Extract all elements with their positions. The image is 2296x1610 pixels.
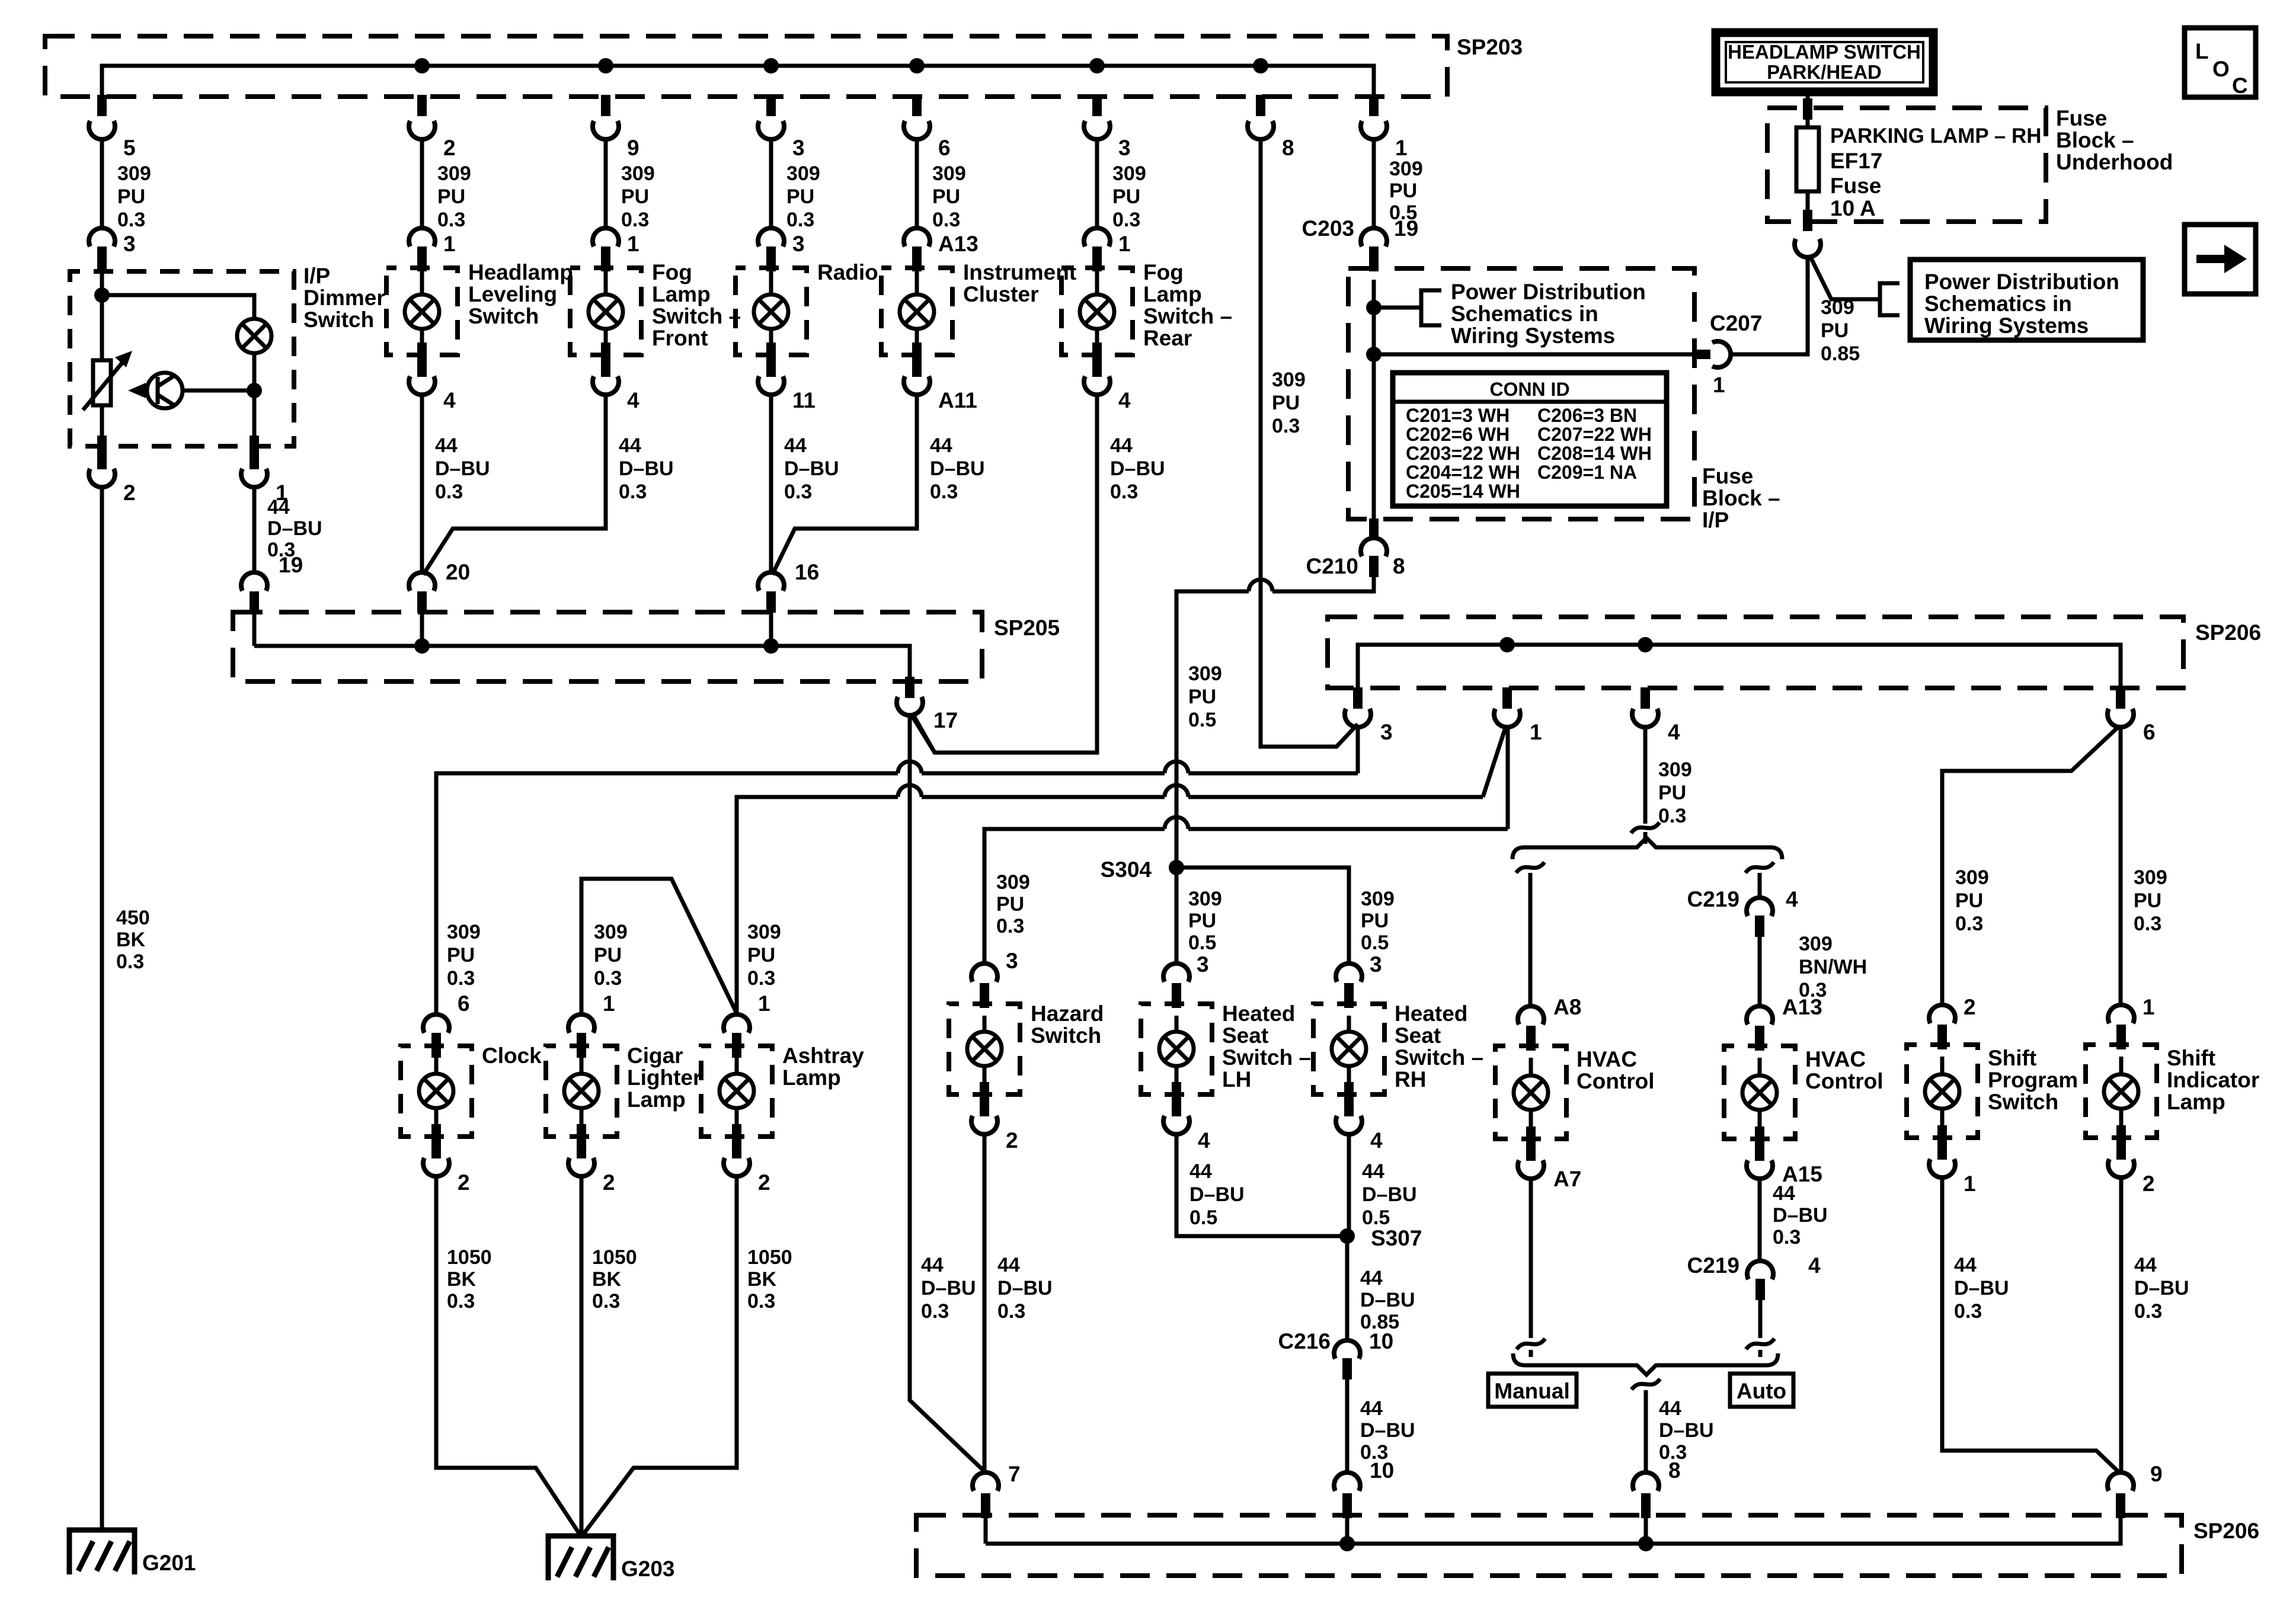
connector pin 2 hazard bottom (980, 1095, 989, 1116)
shift program switch dashed box (1907, 1045, 1978, 1138)
svg-text:8: 8 (1393, 554, 1405, 578)
svg-text:44: 44 (1773, 1182, 1795, 1205)
splice pack SP203 dashed box (45, 36, 1447, 97)
svg-text:S304: S304 (1101, 857, 1152, 882)
junction SP205 bus at pin 20 (414, 638, 430, 654)
lamp shift program switch (1925, 1074, 1959, 1109)
svg-text:44: 44 (1954, 1254, 1977, 1276)
ground G203 (548, 1536, 613, 1580)
svg-text:3: 3 (792, 232, 805, 256)
svg-text:Lighter: Lighter (627, 1065, 701, 1090)
svg-text:0.3: 0.3 (921, 1300, 949, 1323)
svg-text:309: 309 (1361, 888, 1395, 910)
connector SP203 pin 9 (fog front feed) (601, 95, 610, 116)
wire into clock lamp (434, 1058, 439, 1074)
wire 309 PU 0.3 to fog lamp switch rear (1095, 139, 1099, 228)
svg-text:S307: S307 (1371, 1226, 1422, 1250)
junction bottom bus at pin 10 (1339, 1536, 1355, 1551)
connector pin 11 radio bottom (766, 356, 776, 377)
svg-text:Fog: Fog (652, 260, 692, 284)
lamp HVAC control auto (1742, 1076, 1777, 1110)
svg-text:I/P: I/P (1702, 508, 1729, 532)
connector pin 1 shift program bottom (1937, 1138, 1947, 1160)
wire clock feed (SP206 pin 3 to clock) (436, 773, 1358, 1014)
svg-text:0.3: 0.3 (1110, 481, 1138, 503)
wire 309 PU 0.3 to instrument cluster (915, 139, 919, 228)
svg-text:4: 4 (1118, 388, 1131, 412)
wire headlamp switch to fuse (1806, 91, 1810, 127)
svg-text:10: 10 (1370, 1458, 1394, 1483)
svg-text:PU: PU (1361, 910, 1389, 932)
svg-text:44: 44 (1110, 434, 1133, 457)
svg-text:44: 44 (2134, 1254, 2157, 1276)
wire 44 D-BU 0.3 headlamp leveling to SP205 pin 20 (420, 395, 424, 572)
wire 44 D-BU 0.3 HVAC return to SP206 pin 8 (1644, 1390, 1648, 1473)
svg-text:309: 309 (1955, 866, 1989, 889)
svg-text:D–BU: D–BU (1954, 1277, 2009, 1299)
svg-text:44: 44 (619, 434, 641, 457)
svg-text:PU: PU (117, 185, 145, 208)
connector SP206 pin 4 (1641, 687, 1650, 709)
svg-text:D–BU: D–BU (1360, 1289, 1415, 1311)
wire pin 10 into bottom SP206 bus (1345, 1517, 1350, 1544)
svg-text:C201=3 WH: C201=3 WH (1406, 405, 1510, 426)
connector SP203 pin 3 (fog rear feed) (1092, 95, 1102, 116)
node fuse block power distribution tap (1366, 300, 1382, 315)
wire SP206 pin 3 vertical leg to clock run (1356, 727, 1360, 773)
wire shift indicator lamp to pin 2 (2119, 1109, 2124, 1138)
cigar lighter lamp dashed box (546, 1046, 617, 1137)
wire into fog rear lamp (1095, 271, 1099, 295)
svg-text:0.5: 0.5 (1361, 932, 1389, 954)
svg-text:0.3: 0.3 (930, 481, 958, 503)
wire into HVAC manual lamp (1529, 1058, 1533, 1076)
splice option mark merged HVAC return (1632, 1379, 1660, 1390)
wire 44 D-BU 0.3 shift program to SP206 pin 9 (1942, 1177, 2121, 1474)
svg-text:HEADLAMP SWITCH: HEADLAMP SWITCH (1728, 41, 1921, 63)
wire pin 7 into bottom SP206 bus (984, 1517, 988, 1544)
svg-text:3: 3 (1380, 720, 1393, 744)
wire cigar lamp to pin 2 (580, 1108, 584, 1137)
svg-text:Switch: Switch (1988, 1090, 2058, 1114)
hop of C210 wire over SP203 pin 8 wire (1249, 580, 1272, 591)
wire SP206 pin 1 vertical leg to hazard run (1506, 727, 1510, 829)
wire pin 19 into SP205 bus (252, 611, 257, 646)
svg-text:D–BU: D–BU (2134, 1277, 2189, 1299)
wire 44 D-BU 0.85 S307 to C216 (1345, 1236, 1350, 1340)
wire fog front lamp to pin 4 (604, 329, 608, 355)
lamp I/P dimmer illumination (237, 319, 271, 353)
svg-text:0.3: 0.3 (2134, 913, 2161, 935)
wire 44 D-BU 0.3 shift indicator to SP206 pin 9 (2119, 1177, 2124, 1473)
svg-text:1: 1 (1713, 373, 1725, 397)
radio dashed box (736, 268, 807, 355)
svg-text:PARKING LAMP – RH: PARKING LAMP – RH (1830, 124, 2042, 148)
svg-text:44: 44 (930, 434, 952, 457)
arrow from sensor to rheostat (141, 389, 147, 393)
svg-text:44: 44 (267, 496, 290, 518)
svg-text:0.5: 0.5 (1188, 709, 1216, 731)
svg-text:0.3: 0.3 (621, 209, 649, 231)
node I/P dimmer internal junction (94, 287, 110, 303)
svg-text:44: 44 (921, 1254, 944, 1276)
clock dashed box (401, 1046, 472, 1137)
svg-text:309: 309 (437, 162, 471, 185)
svg-text:309: 309 (786, 162, 820, 185)
svg-text:Fuse: Fuse (2056, 106, 2107, 130)
svg-text:EF17: EF17 (1830, 149, 1882, 173)
svg-text:6: 6 (458, 991, 470, 1016)
svg-text:44: 44 (1362, 1160, 1384, 1183)
svg-text:D–BU: D–BU (1773, 1204, 1828, 1227)
connector pin 2 clock bottom (431, 1137, 441, 1158)
svg-text:D–BU: D–BU (435, 457, 490, 480)
svg-text:Manual: Manual (1494, 1379, 1569, 1403)
svg-text:C210: C210 (1306, 554, 1358, 578)
svg-text:0.3: 0.3 (435, 481, 463, 503)
svg-text:5: 5 (123, 136, 136, 160)
svg-text:1: 1 (1530, 720, 1542, 744)
svg-text:Dimmer: Dimmer (303, 286, 385, 310)
svg-text:Program: Program (1988, 1068, 2078, 1092)
LOC legend box (2185, 28, 2256, 97)
wire I/P dimmer internal top branch to lamp (102, 295, 254, 319)
svg-text:1: 1 (1964, 1172, 1976, 1196)
svg-text:Clock: Clock (482, 1044, 542, 1068)
svg-text:1050: 1050 (747, 1246, 792, 1269)
wire 44 D-BU 0.3 C216 to SP206 pin 10 (1345, 1379, 1350, 1473)
svg-text:CONN ID: CONN ID (1489, 379, 1569, 400)
svg-text:309: 309 (1658, 758, 1692, 781)
svg-text:Seat: Seat (1395, 1023, 1441, 1048)
svg-text:0.3: 0.3 (447, 1290, 475, 1313)
svg-text:C203: C203 (1302, 216, 1354, 241)
svg-text:D–BU: D–BU (997, 1277, 1053, 1299)
svg-text:309: 309 (1389, 158, 1423, 180)
svg-text:PU: PU (1821, 319, 1849, 342)
wire sensor to lamp branch (183, 389, 254, 393)
connector SP206 pin 6 (2116, 687, 2125, 709)
svg-text:D–BU: D–BU (1659, 1419, 1714, 1442)
svg-text:309: 309 (747, 921, 781, 943)
wire I/P dimmer lamp to bottom (252, 353, 257, 446)
svg-text:PU: PU (621, 185, 649, 208)
svg-text:PARK/HEAD: PARK/HEAD (1767, 61, 1882, 83)
svg-text:C206=3 BN: C206=3 BN (1537, 405, 1637, 426)
svg-text:19: 19 (1394, 216, 1418, 241)
svg-text:309: 309 (932, 162, 966, 185)
svg-text:309: 309 (996, 871, 1030, 894)
svg-text:0.5: 0.5 (1188, 932, 1216, 954)
lamp radio illumination (754, 295, 788, 329)
node fuse block C207 tap (1366, 347, 1382, 362)
svg-text:Lamp: Lamp (652, 282, 711, 306)
instrument cluster dashed box (881, 268, 952, 355)
wire HVAC manual to bottom brace (1529, 1179, 1533, 1357)
splice pack SP205 dashed box (233, 612, 982, 681)
wire hazard lamp to pin 2 (983, 1066, 987, 1094)
fuse block I/P dashed box (1348, 268, 1694, 519)
wire 44 D-BU 0.3 HVAC auto to C219 (1758, 1179, 1762, 1261)
svg-text:0.3: 0.3 (594, 967, 622, 990)
svg-text:8: 8 (1282, 136, 1294, 160)
junction SP205 bus at pin 16 (763, 638, 779, 654)
wire C219 lower to bottom brace (1758, 1300, 1763, 1357)
wire 450 BK 0.3 to G201 (100, 487, 104, 1530)
svg-text:PU: PU (747, 944, 775, 966)
svg-text:4: 4 (1198, 1128, 1210, 1153)
junction on SP203 bus at fog rear drop (1089, 58, 1105, 73)
svg-text:A7: A7 (1553, 1167, 1581, 1191)
wire 44 D-BU 0.5 heated RH to S307 (1347, 1134, 1351, 1236)
svg-text:Switch –: Switch – (1222, 1045, 1311, 1070)
splice option mark HVAC manual bottom (1517, 1339, 1545, 1349)
bracket power distribution reference (1421, 290, 1441, 325)
wire into heated LH lamp (1175, 1016, 1179, 1032)
svg-text:0.3: 0.3 (1272, 415, 1300, 437)
svg-text:HVAC: HVAC (1576, 1047, 1637, 1071)
svg-text:Schematics in: Schematics in (1924, 292, 2072, 316)
connector SP203 pin 1 (fuse block feed) (1369, 95, 1379, 116)
svg-text:1: 1 (2142, 995, 2155, 1019)
svg-text:Cigar: Cigar (627, 1044, 683, 1068)
wire SP205 pin 17 down to SP206 pin 7 (910, 715, 986, 1473)
svg-text:PU: PU (1389, 180, 1417, 202)
wire tap to power distribution bracket (1374, 306, 1421, 310)
junction on SP203 bus at pin 8 drop (1253, 58, 1268, 73)
svg-text:0.3: 0.3 (786, 209, 814, 231)
lamp ashtray (720, 1074, 754, 1108)
junction on SP203 bus at radio drop (763, 58, 779, 73)
svg-text:D–BU: D–BU (1189, 1183, 1245, 1206)
splice pack SP206 dashed box (bottom) (916, 1515, 2182, 1576)
svg-text:Ashtray: Ashtray (782, 1044, 864, 1068)
svg-text:11: 11 (792, 388, 816, 412)
wire SP203 pin 8 down to SP206 pin 3 (1261, 139, 1358, 747)
hop ashtray feed over S304 wire (1165, 785, 1188, 797)
svg-text:Schematics in: Schematics in (1451, 302, 1598, 326)
HVAC control (auto) dashed box (1724, 1046, 1795, 1139)
svg-text:D–BU: D–BU (1362, 1183, 1417, 1206)
Manual option box (1488, 1374, 1576, 1407)
wire 309 PU 0.3 to radio (769, 139, 773, 228)
svg-text:1050: 1050 (592, 1246, 637, 1269)
svg-text:C205=14 WH: C205=14 WH (1406, 481, 1520, 502)
svg-text:Lamp: Lamp (1143, 282, 1202, 306)
svg-text:Switch: Switch (303, 308, 374, 332)
svg-text:Underhood: Underhood (2056, 150, 2173, 174)
wire SP206 bottom internal bus (986, 1517, 2121, 1544)
node I/P dimmer lamp/sensor junction (247, 383, 262, 398)
svg-text:PU: PU (1188, 686, 1216, 708)
svg-text:A13: A13 (938, 232, 978, 256)
svg-text:309: 309 (2134, 866, 2167, 889)
connector pin 4 heated LH bottom (1172, 1095, 1181, 1116)
svg-text:G203: G203 (621, 1557, 675, 1581)
svg-text:C219: C219 (1687, 887, 1739, 911)
wire heated RH lamp to pin 4 (1347, 1066, 1351, 1094)
svg-text:44: 44 (435, 434, 458, 457)
lamp HVAC control manual (1514, 1076, 1548, 1110)
svg-text:3: 3 (1197, 952, 1209, 977)
lamp hazard switch illumination (967, 1032, 1002, 1066)
svg-text:Fog: Fog (1143, 260, 1184, 284)
svg-text:0.3: 0.3 (747, 1290, 775, 1313)
wire HVAC auto drop upper (1758, 873, 1762, 898)
splice S307 (1339, 1228, 1355, 1244)
wire into radio lamp (769, 271, 773, 295)
wire into instrument cluster lamp (915, 271, 919, 295)
ground G201 (69, 1530, 135, 1574)
svg-text:10: 10 (1369, 1329, 1393, 1353)
svg-text:3: 3 (792, 136, 805, 160)
connector pin 1 I/P dimmer bottom (250, 436, 259, 457)
svg-text:PU: PU (437, 185, 465, 208)
svg-text:Headlamp: Headlamp (468, 260, 573, 284)
svg-text:SP206: SP206 (2193, 1519, 2259, 1543)
splice option mark HVAC auto bottom (1746, 1339, 1774, 1349)
junction bottom bus at pin 8 (1638, 1536, 1654, 1551)
wire radio lamp to pin 11 (769, 329, 773, 355)
svg-text:D–BU: D–BU (921, 1277, 976, 1299)
svg-text:44: 44 (1360, 1267, 1383, 1289)
HVAC control (manual) dashed box (1495, 1046, 1566, 1139)
svg-text:309: 309 (1188, 662, 1222, 685)
svg-text:D–BU: D–BU (619, 457, 674, 480)
svg-text:C208=14 WH: C208=14 WH (1537, 443, 1652, 464)
svg-text:2: 2 (458, 1170, 470, 1195)
connector pin 4 headlamp leveling bottom (417, 356, 427, 377)
svg-text:BK: BK (116, 929, 146, 951)
svg-text:Switch –: Switch – (1143, 304, 1232, 328)
svg-text:C209=1 NA: C209=1 NA (1537, 462, 1637, 483)
wire into heated RH lamp (1347, 1016, 1351, 1032)
svg-text:4: 4 (1668, 720, 1680, 744)
splice option mark on pin 4 wire (1631, 822, 1659, 833)
svg-text:0.3: 0.3 (619, 481, 647, 503)
wire tap to C207 (1374, 353, 1709, 357)
svg-text:44: 44 (1189, 1160, 1212, 1183)
svg-text:Fuse: Fuse (1830, 174, 1881, 198)
svg-text:PU: PU (447, 944, 475, 966)
svg-text:Wiring Systems: Wiring Systems (1451, 324, 1615, 348)
svg-text:D–BU: D–BU (267, 517, 322, 540)
wire into headlamp leveling lamp (420, 271, 424, 295)
svg-text:0.3: 0.3 (997, 1300, 1025, 1323)
svg-text:450: 450 (116, 907, 150, 929)
svg-text:C207=22 WH: C207=22 WH (1537, 424, 1652, 445)
wire heated LH lamp to pin 4 (1175, 1066, 1179, 1094)
wire pin 20 into SP205 bus (420, 611, 424, 646)
junction on SP203 bus at headlamp leveling drop (414, 58, 430, 73)
svg-text:Leveling: Leveling (468, 282, 557, 306)
lamp cigar lighter (564, 1074, 599, 1108)
svg-text:Cluster: Cluster (963, 282, 1038, 306)
svg-text:PU: PU (786, 185, 814, 208)
wire into fog front lamp (604, 271, 608, 295)
svg-text:1: 1 (627, 232, 639, 256)
svg-text:Auto: Auto (1737, 1379, 1786, 1403)
svg-text:0.3: 0.3 (116, 950, 144, 973)
wire C207 to parking lamp fuse (1731, 257, 1808, 354)
svg-text:Lamp: Lamp (2167, 1090, 2225, 1114)
heated seat switch LH dashed box (1141, 1004, 1212, 1094)
svg-text:0.5: 0.5 (1189, 1206, 1217, 1229)
svg-text:D–BU: D–BU (784, 457, 839, 480)
svg-text:4: 4 (1808, 1253, 1821, 1278)
junction on SP203 bus at fog front drop (598, 58, 613, 73)
wire hazard feed (SP206 pin 1 to hazard switch) (984, 829, 1508, 964)
connector fuse block underhood output (1803, 210, 1812, 231)
wire shift program lamp to pin 1 (1940, 1109, 1945, 1138)
wire 44 D-BU 0.3 fog rear to SP205 pin 17 (912, 395, 1097, 753)
wire into shift indicator lamp (2119, 1057, 2124, 1074)
lamp clock illumination (419, 1074, 453, 1108)
svg-text:3: 3 (1118, 136, 1131, 160)
svg-text:Shift: Shift (1988, 1046, 2036, 1070)
svg-text:Power Distribution: Power Distribution (1924, 270, 2119, 294)
svg-text:309: 309 (594, 921, 628, 943)
svg-text:2: 2 (1964, 995, 1976, 1019)
svg-text:0.3: 0.3 (1112, 209, 1140, 231)
heated seat switch RH dashed box (1313, 1004, 1384, 1094)
svg-text:44: 44 (1360, 1397, 1383, 1420)
svg-text:1: 1 (1395, 136, 1408, 160)
svg-text:BK: BK (592, 1268, 622, 1291)
lamp heated seat switch LH (1159, 1032, 1194, 1066)
brace HVAC feed split (1512, 838, 1782, 859)
svg-text:0.3: 0.3 (747, 967, 775, 990)
connector pin 4 fog front bottom (601, 356, 610, 377)
svg-text:4: 4 (443, 388, 456, 412)
headlamp leveling switch dashed box (386, 268, 458, 355)
wire SP206 internal bus (1358, 645, 2121, 688)
connector pin 2 shift indicator bottom (2116, 1138, 2126, 1160)
wire branch to power distribution reference (1809, 255, 1880, 299)
svg-text:BK: BK (747, 1268, 777, 1291)
svg-text:0.3: 0.3 (2134, 1300, 2162, 1323)
wire into cigar lighter lamp (580, 1058, 584, 1074)
svg-text:A13: A13 (1782, 995, 1822, 1019)
wire I/P dimmer internal left branch (100, 271, 104, 360)
junction SP206 bus at pin 4 (1638, 637, 1653, 652)
svg-text:A8: A8 (1553, 995, 1581, 1019)
wire SP205 pin 17 branch to fog rear run (911, 714, 935, 753)
lamp headlamp leveling switch illumination (405, 295, 439, 329)
wire SP206 pin 6 branch to shift program switch (1942, 726, 2119, 1005)
connector pin 2 ashtray bottom (732, 1137, 741, 1158)
wire into hazard lamp (983, 1016, 987, 1032)
svg-text:17: 17 (933, 708, 958, 732)
svg-text:0.3: 0.3 (437, 209, 465, 231)
svg-text:C202=6 WH: C202=6 WH (1406, 424, 1510, 445)
arrow continuation box (2185, 225, 2256, 294)
svg-text:6: 6 (2143, 720, 2156, 744)
svg-text:C203=22 WH: C203=22 WH (1406, 443, 1520, 464)
svg-text:Rear: Rear (1143, 326, 1192, 350)
svg-text:0.3: 0.3 (1955, 913, 1983, 935)
svg-text:D–BU: D–BU (1110, 457, 1165, 480)
svg-text:0.3: 0.3 (996, 915, 1024, 937)
svg-text:20: 20 (446, 560, 470, 584)
hazard switch dashed box (949, 1004, 1020, 1094)
Auto option box (1730, 1374, 1793, 1407)
svg-text:2: 2 (443, 136, 456, 160)
svg-text:PU: PU (1272, 392, 1300, 414)
svg-text:0.3: 0.3 (592, 1290, 620, 1313)
svg-text:D–BU: D–BU (930, 457, 985, 480)
resistor (rheostat) in I/P dimmer (93, 360, 111, 405)
